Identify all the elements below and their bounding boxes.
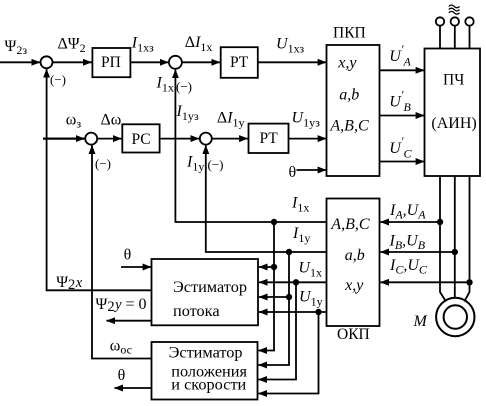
svg-text:IC,UC: IC,UC <box>389 257 428 277</box>
supply symbol ~3 <box>449 5 460 14</box>
block position-speed estimator <box>152 342 258 400</box>
svg-text:ωз: ωз <box>66 112 82 131</box>
svg-text:A,B,C: A,B,C <box>330 216 370 233</box>
wire terminal 1 stub <box>439 26 441 49</box>
svg-text:I1уз: I1уз <box>176 103 199 123</box>
svg-text:x,y: x,y <box>337 55 357 72</box>
svg-text:I1х: I1х <box>156 75 174 95</box>
wire vertical C to position estimator <box>258 282 296 379</box>
wire phase C to motor <box>464 176 469 302</box>
supply terminal 3 <box>465 17 473 25</box>
wire phase B to motor <box>454 176 456 298</box>
svg-text:РТ: РТ <box>260 130 279 147</box>
wire A stub to flux estimator <box>259 266 274 268</box>
svg-text:ПКП: ПКП <box>333 25 366 42</box>
svg-text:θ: θ <box>289 164 297 181</box>
supply terminal 2 <box>451 17 459 25</box>
svg-text:Ψ2y = 0: Ψ2y = 0 <box>96 296 147 315</box>
wire Psi2y=0 output <box>107 320 152 322</box>
svg-text:I1хз: I1хз <box>131 34 154 54</box>
wire RT1 to PKP (U1xz) <box>258 61 326 63</box>
block PCh (AIN) <box>425 49 481 177</box>
wire I1y feedback to S4 <box>206 145 327 252</box>
svg-text:U′A: U′A <box>389 42 411 69</box>
svg-text:U′B: U′B <box>389 88 411 115</box>
wire terminal 2 stub <box>454 26 456 49</box>
svg-text:(−): (−) <box>176 79 192 94</box>
wire psi2z input <box>0 61 40 63</box>
block PKP <box>327 45 380 176</box>
svg-text:потока: потока <box>173 301 220 320</box>
svg-text:θ: θ <box>118 367 126 384</box>
wire S1 to RP <box>53 61 92 63</box>
svg-text:I1у: I1у <box>186 154 204 174</box>
summing node S3 <box>85 133 97 145</box>
wire S3 to RS <box>97 138 121 140</box>
svg-text:I1у: I1у <box>292 225 310 245</box>
junction dot U1y branch <box>315 309 321 315</box>
junction dot on B for flux input <box>286 294 292 300</box>
motor M inner <box>444 305 467 328</box>
wire RP to S2 <box>130 61 168 63</box>
svg-text:IA,UA: IA,UA <box>389 202 426 222</box>
wire IA,UA to OKP <box>380 221 440 223</box>
wire omega_oc feedback to S3 <box>92 145 152 358</box>
wire I1x feedback to S2 <box>175 70 326 222</box>
summing node S4 <box>200 133 212 145</box>
svg-text:M: M <box>413 313 429 330</box>
wire RT2 to PKP (U1yz) <box>289 138 327 140</box>
wire S2 to RT1 <box>182 61 220 63</box>
svg-text:(−): (−) <box>208 157 224 172</box>
svg-text:θ: θ <box>124 247 132 264</box>
junction dot phase A <box>437 219 443 225</box>
svg-text:U1уз: U1уз <box>292 110 321 130</box>
junction dot I1x branch <box>271 219 277 225</box>
wire vertical D to position estimator <box>258 312 318 394</box>
svg-text:U1у: U1у <box>299 289 323 309</box>
svg-text:a,b: a,b <box>339 87 359 104</box>
svg-text:и скорости: и скорости <box>171 374 246 393</box>
svg-text:I1х: I1х <box>291 195 309 215</box>
svg-text:Эстиматор: Эстиматор <box>173 277 247 296</box>
svg-text:ΔI1у: ΔI1у <box>217 110 245 130</box>
svg-text:IB,UB: IB,UB <box>389 233 426 253</box>
svg-text:ПЧ: ПЧ <box>443 72 464 89</box>
svg-text:(−): (−) <box>50 72 66 87</box>
wire vertical B to position estimator <box>258 252 289 365</box>
junction dot phase C <box>466 279 472 285</box>
svg-text:A,B,C: A,B,C <box>329 118 369 135</box>
wire terminal 3 stub <box>469 26 471 49</box>
svg-text:ΔΨ2: ΔΨ2 <box>58 36 86 56</box>
regulator RS <box>122 124 159 152</box>
regulator RT1 <box>221 47 258 78</box>
svg-text:U1х: U1х <box>298 260 322 280</box>
junction dot I1y branch <box>286 249 292 255</box>
wire U'C <box>380 161 425 163</box>
regulator RT2 <box>249 124 289 153</box>
wire U1x to flux estimator <box>259 281 327 283</box>
svg-text:a,b: a,b <box>345 247 365 264</box>
svg-text:Ψ2з: Ψ2з <box>5 38 28 57</box>
supply terminal 1 <box>436 17 444 25</box>
svg-text:ωос: ωос <box>110 338 132 357</box>
regulator RP <box>92 48 130 77</box>
summing node S2 <box>169 56 182 69</box>
svg-text:Δω: Δω <box>101 111 122 128</box>
wire phase A to motor <box>440 176 446 302</box>
motor M outer <box>436 298 474 336</box>
svg-text:(АИН): (АИН) <box>431 115 476 132</box>
wire omega_z input <box>43 137 84 139</box>
wire theta to PKP <box>297 169 327 171</box>
svg-text:ОКП: ОКП <box>337 326 370 343</box>
wire IB,UB to OKP <box>380 251 454 253</box>
junction dot on A for flux input <box>271 264 277 270</box>
wire U1y to flux estimator <box>259 311 327 313</box>
block OKP <box>327 199 380 327</box>
svg-text:Ψ2x: Ψ2x <box>56 274 83 293</box>
svg-text:U′C: U′C <box>389 134 412 161</box>
svg-text:РС: РС <box>132 131 151 148</box>
wire vertical A to position estimator <box>258 222 274 351</box>
svg-text:РП: РП <box>101 54 121 71</box>
wire Psi2x feedback to S1 <box>47 69 152 290</box>
svg-text:x,y: x,y <box>344 277 364 294</box>
wire theta output <box>115 387 152 389</box>
wire RS to S4 (I1yz) <box>160 138 199 140</box>
svg-text:Эстиматор: Эстиматор <box>169 342 243 361</box>
wire U'B <box>380 115 425 117</box>
svg-text:U1хз: U1хз <box>276 35 304 55</box>
svg-text:РТ: РТ <box>230 54 249 71</box>
junction dot phase B <box>452 249 458 255</box>
svg-text:ΔI1х: ΔI1х <box>185 34 213 54</box>
wire IC,UC to OKP <box>380 281 469 283</box>
block flux estimator <box>152 259 259 325</box>
wire theta to flux estimator <box>121 266 151 268</box>
junction dot U1x branch <box>293 279 299 285</box>
wire B stub to flux estimator <box>259 296 289 298</box>
svg-text:(−): (−) <box>95 156 111 171</box>
wire U'A <box>380 69 425 71</box>
summing node S1 <box>41 56 53 68</box>
wire S4 to RT2 <box>212 138 248 140</box>
